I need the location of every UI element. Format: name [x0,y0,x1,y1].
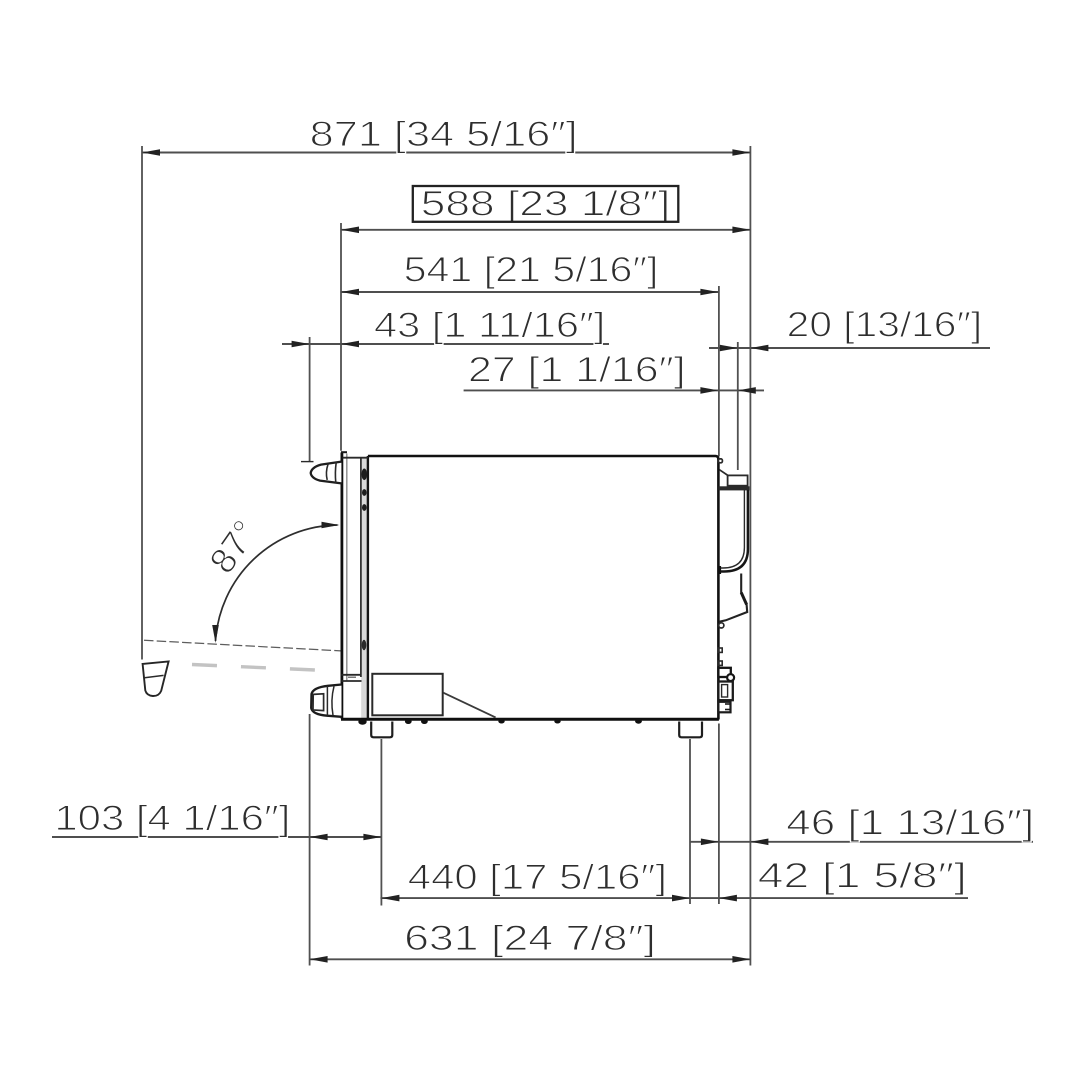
svg-text:588 [23 1/8″]: 588 [23 1/8″] [421,185,671,224]
svg-text:27 [1 1/16″]: 27 [1 1/16″] [468,351,686,390]
svg-text:103 [4 1/16″]: 103 [4 1/16″] [54,799,290,838]
svg-text:541 [21 5/16″]: 541 [21 5/16″] [404,251,659,290]
svg-text:440 [17 5/16″]: 440 [17 5/16″] [408,858,667,897]
svg-text:631 [24 7/8″]: 631 [24 7/8″] [404,919,656,958]
svg-text:46 [1 13/16″]: 46 [1 13/16″] [786,804,1034,843]
svg-text:43 [1 11/16″]: 43 [1 11/16″] [374,306,605,345]
svg-text:42 [1 5/8″]: 42 [1 5/8″] [758,857,967,896]
svg-text:871 [34 5/16″]: 871 [34 5/16″] [310,115,578,154]
svg-text:20 [13/16″]: 20 [13/16″] [787,306,983,345]
